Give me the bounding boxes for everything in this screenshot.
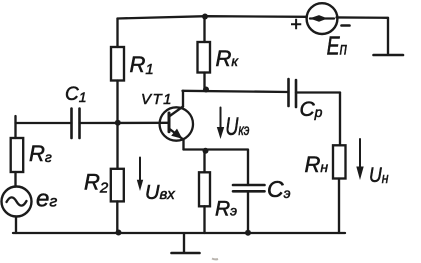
svg-text:Rэ: Rэ bbox=[215, 198, 237, 221]
svg-text:R2: R2 bbox=[84, 170, 109, 197]
svg-text:Cэ: Cэ bbox=[267, 176, 291, 202]
svg-text:Eп: Eп bbox=[327, 31, 348, 60]
svg-text:C1: C1 bbox=[65, 84, 87, 105]
svg-text:Rн: Rн bbox=[305, 152, 329, 177]
svg-text:VT1: VT1 bbox=[141, 91, 173, 108]
svg-text:Cр: Cр bbox=[300, 98, 323, 121]
svg-text:Rг: Rг bbox=[29, 141, 52, 166]
svg-text:+: + bbox=[290, 14, 302, 36]
svg-text:Uн: Uн bbox=[369, 163, 389, 187]
svg-text:Uкэ: Uкэ bbox=[225, 112, 249, 141]
svg-text:R1: R1 bbox=[130, 52, 154, 78]
svg-text:eг: eг bbox=[36, 186, 57, 213]
svg-text:Uвх: Uвх bbox=[145, 182, 175, 204]
svg-text:Rк: Rк bbox=[216, 46, 240, 71]
